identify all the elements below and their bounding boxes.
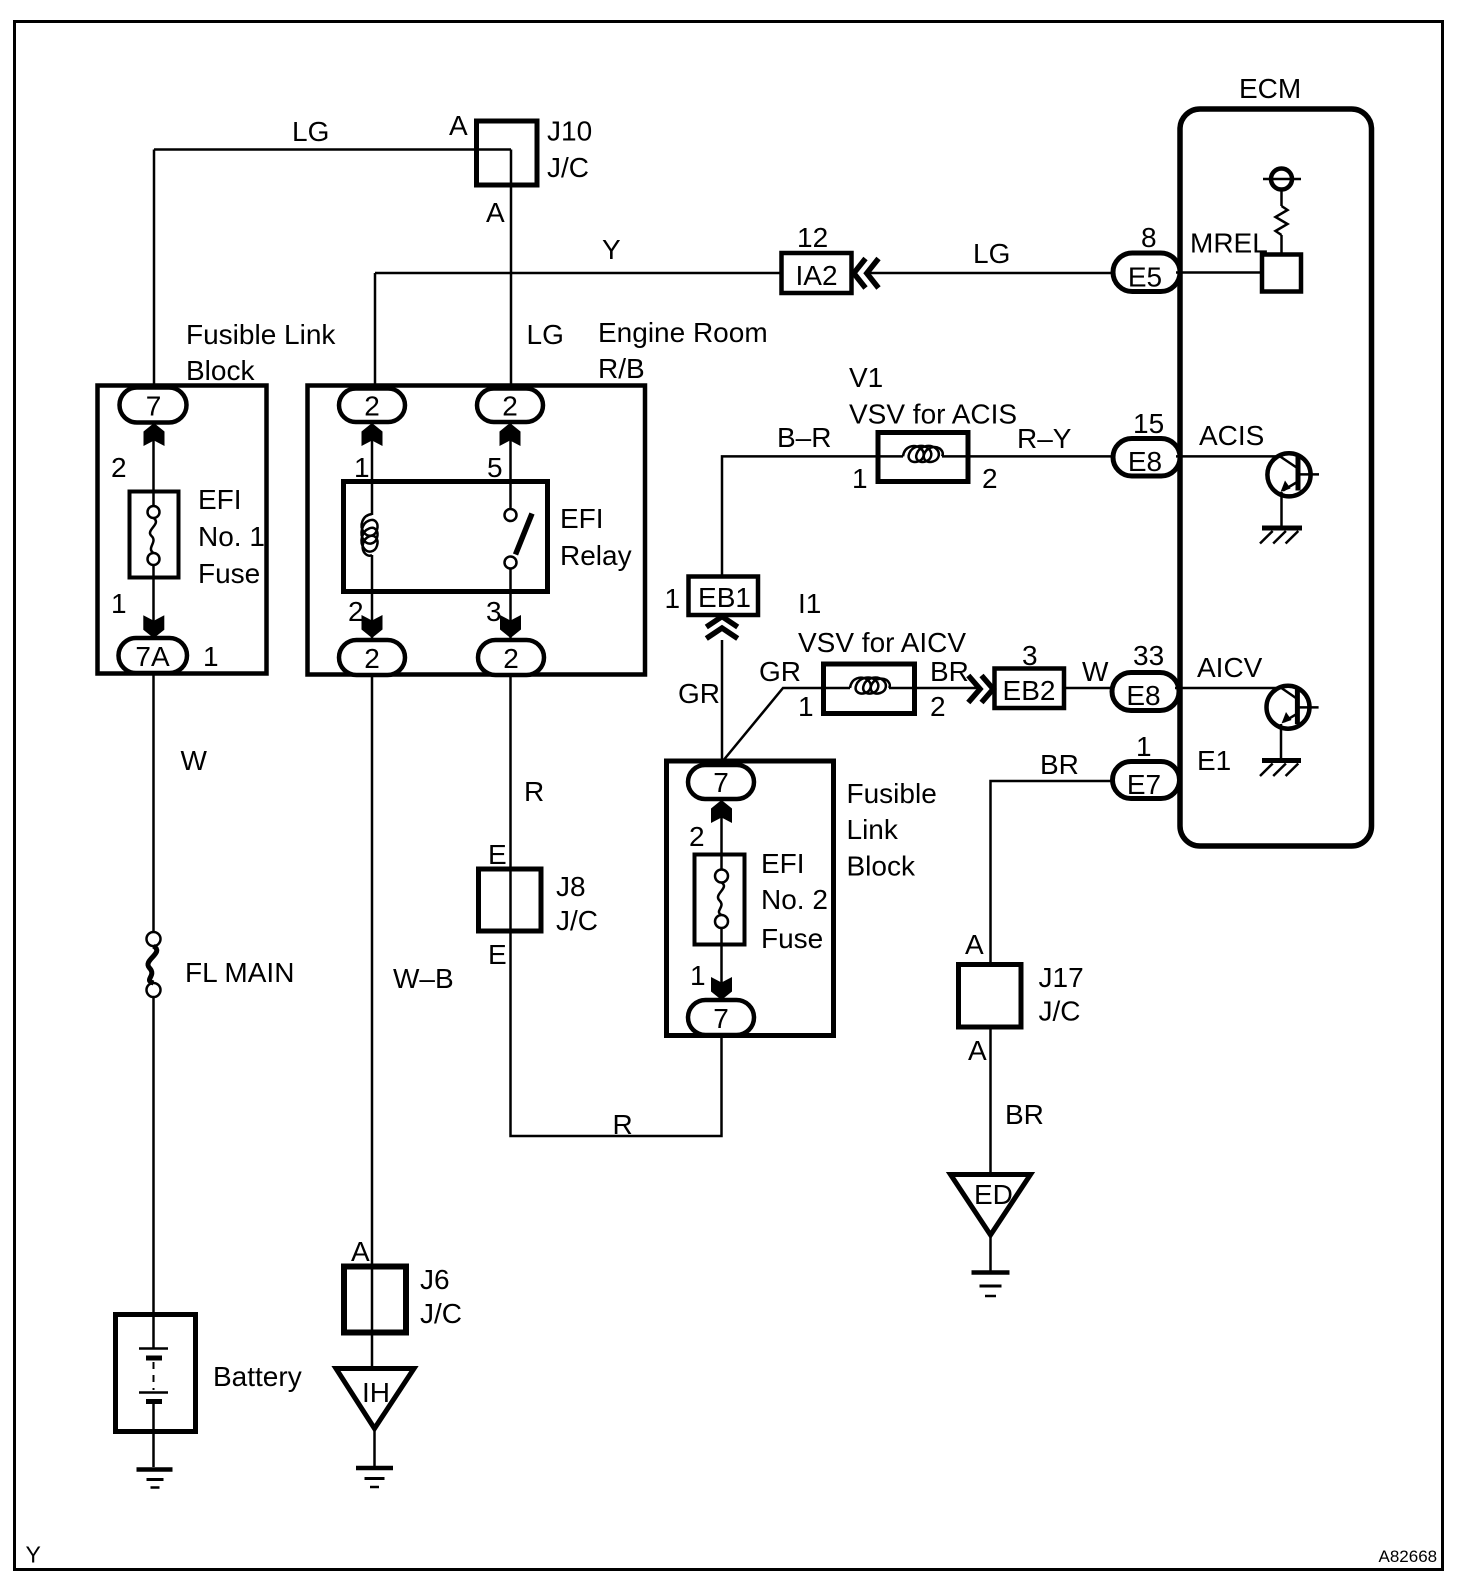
svg-text:LG: LG [973,238,1010,269]
wire Y horizontal [375,272,781,275]
arrow down at terminal 7A [143,615,164,638]
junction J10 J/C [477,116,593,186]
svg-text:E1: E1 [1197,745,1231,776]
svg-text:GR: GR [759,656,801,687]
svg-text:E8: E8 [1128,446,1162,477]
arrow up below oval 7 [711,800,732,823]
svg-text:GR: GR [678,678,720,709]
svg-text:2: 2 [503,643,519,674]
arrow up below oval 2 left [362,423,383,446]
terminal oval 2 (top left) [339,389,405,423]
ECM block [1180,73,1372,846]
wire through EFI No.1 fuse [152,422,155,506]
svg-text:ECM: ECM [1239,73,1301,104]
svg-text:R/B: R/B [598,353,645,384]
connector chevrons before EB2 [968,676,993,703]
ground hatched at AICV [1260,761,1301,777]
junction J17 J/C [959,962,1084,1027]
svg-text:IH: IH [362,1377,390,1408]
connector chevrons below EB1 [706,617,737,639]
fuse EFI No. 2 [695,848,828,954]
arrow up below oval 2 right [500,423,521,446]
svg-text:1: 1 [354,452,370,483]
svg-text:IA2: IA2 [795,260,837,291]
connector E8 (AICV) [1112,673,1179,712]
svg-text:A: A [449,110,468,141]
wire E5 to MREL box [1176,271,1264,274]
svg-text:Block: Block [186,355,255,386]
svg-text:7: 7 [713,767,729,798]
svg-text:A: A [968,1035,987,1066]
svg-text:AICV: AICV [1197,652,1263,683]
transistor AICV driver [1267,686,1319,759]
svg-text:Fusible: Fusible [847,778,937,809]
svg-text:EB1: EB1 [698,582,751,613]
svg-text:2: 2 [502,391,518,422]
svg-text:2: 2 [689,821,705,852]
terminal oval 2 (bottom left) [339,640,405,675]
wire relay pin 5 [509,422,512,509]
svg-text:1: 1 [798,691,814,722]
svg-text:2: 2 [111,452,127,483]
arrow up at terminal 7 [144,423,165,446]
svg-text:E7: E7 [1127,769,1161,800]
svg-text:J17: J17 [1039,962,1084,993]
svg-text:J6: J6 [420,1264,450,1295]
svg-text:EFI: EFI [761,848,805,879]
svg-text:E5: E5 [1128,262,1162,293]
svg-text:Y: Y [26,1542,41,1568]
EFI relay box [344,482,632,592]
svg-text:LG: LG [292,116,329,147]
wire W battery feed [152,673,155,932]
ground triangle IH [336,1369,414,1467]
terminal oval 7 top [688,765,754,799]
svg-text:12: 12 [797,222,828,253]
wire LG from IA2 to E5 [870,272,1114,275]
svg-text:Fuse: Fuse [761,923,823,954]
svg-text:15: 15 [1133,408,1164,439]
svg-text:BR: BR [930,656,969,687]
wire R-Y [968,455,1114,458]
connector chevrons at IA2 [854,259,879,289]
wire E8 to ACIS transistor [1176,455,1281,458]
svg-text:MREL: MREL [1190,228,1268,259]
wire E8 to AICV transistor [1175,687,1282,690]
svg-text:EFI: EFI [198,484,242,515]
wire Y vertical [374,273,377,390]
svg-text:1: 1 [1136,731,1152,762]
wire B-R [722,456,878,577]
wire pin3 to oval [509,591,512,640]
svg-text:1: 1 [665,583,681,614]
svg-text:BR: BR [1005,1099,1044,1130]
svg-text:No. 1: No. 1 [198,521,265,552]
junction J8 J/C [479,869,599,936]
svg-text:1: 1 [852,463,868,494]
svg-text:R: R [613,1109,633,1140]
arrow down above bottom-right oval [500,615,521,638]
Fusible Link Block 1 [98,319,337,674]
svg-text:J/C: J/C [547,152,589,183]
terminal oval 7A [119,638,188,673]
ground below ED [972,1273,1010,1297]
transistor ACIS driver [1267,453,1319,527]
wire GR from EB1 to fusible link 7 [721,640,724,763]
connector EB1 pin 1 [665,577,759,616]
svg-text:I1: I1 [798,588,821,619]
svg-text:1: 1 [690,960,706,991]
wire relay switch to pin 3 [509,569,512,592]
battery [116,1314,302,1467]
Engine Room R/B block [308,317,768,675]
svg-text:5: 5 [487,452,503,483]
svg-text:7: 7 [713,1003,729,1034]
wire pin2 to oval [371,591,374,640]
wire BR to EB2 [915,687,977,690]
svg-text:33: 33 [1133,640,1164,671]
svg-text:VSV for ACIS: VSV for ACIS [849,399,1017,430]
svg-text:2: 2 [364,643,380,674]
svg-text:Link: Link [847,814,899,845]
svg-text:ACIS: ACIS [1199,420,1264,451]
svg-text:E: E [488,839,507,870]
wire BR from E7 [991,781,1114,964]
svg-text:VSV for AICV: VSV for AICV [798,627,966,658]
svg-text:R–Y: R–Y [1017,423,1072,454]
svg-text:A82668: A82668 [1379,1547,1438,1566]
terminal oval 7 [120,388,187,423]
svg-text:R: R [524,776,544,807]
svg-text:Y: Y [602,234,621,265]
wire relay coil to pin 2 [371,555,374,591]
svg-text:FL MAIN: FL MAIN [185,957,294,988]
svg-text:J/C: J/C [420,1298,462,1329]
wire LG vertical to fusible link block [153,150,156,391]
svg-text:Fusible Link: Fusible Link [186,319,336,350]
arrow down above oval 7 bottom [711,977,732,1000]
svg-text:7A: 7A [135,641,170,672]
connector E5 [1113,253,1180,293]
terminal oval 7 bottom [688,1000,754,1035]
connector E8 (ACIS) [1113,439,1180,478]
svg-text:A: A [965,929,984,960]
wire A from J10 down [510,150,513,391]
connector E7 [1113,762,1180,801]
svg-text:2: 2 [348,596,364,627]
wire through EFI No.2 fuse [720,799,723,870]
ground below battery [137,1470,173,1488]
svg-text:2: 2 [982,463,998,494]
svg-text:Battery: Battery [213,1361,302,1392]
svg-text:J/C: J/C [1039,996,1081,1027]
wire GR diagonal [722,688,823,762]
svg-text:Block: Block [847,851,916,882]
svg-text:A: A [351,1236,370,1267]
relay coil [362,514,378,556]
terminal oval 2 (top right) [477,389,543,423]
svg-text:EB2: EB2 [1003,675,1056,706]
wire W-B relay coil ground path [371,675,374,1368]
svg-text:J10: J10 [547,116,592,147]
wire R from relay to J8 and fusible link 2 [511,675,722,1136]
svg-text:A: A [486,197,505,228]
svg-text:J/C: J/C [556,905,598,936]
svg-text:EFI: EFI [560,503,604,534]
svg-text:E8: E8 [1126,680,1160,711]
VSV V1 coil [878,446,968,462]
wire relay pin 1 [371,422,374,515]
relay switch [505,509,533,569]
svg-text:8: 8 [1141,222,1157,253]
svg-text:W: W [181,745,208,776]
svg-text:1: 1 [203,641,219,672]
svg-text:B–R: B–R [777,422,831,453]
svg-text:W: W [1082,656,1109,687]
wire BR to ED [989,1027,992,1174]
Fusible Link Block 2 [667,761,937,1036]
arrow down above bottom-left oval [362,615,383,638]
VSV I1 coil [823,678,915,694]
svg-text:Engine Room: Engine Room [598,317,768,348]
junction J6 J/C [344,1264,462,1333]
svg-text:BR: BR [1040,749,1079,780]
ground below IH [356,1468,393,1487]
wire W [1064,687,1113,690]
svg-text:LG: LG [527,319,564,350]
svg-text:J8: J8 [556,871,586,902]
fusible link FL MAIN [147,932,295,997]
svg-text:E: E [488,939,507,970]
VSV V1 box [878,433,968,482]
fuse EFI No. 1 [130,484,265,589]
VSV I1 box [824,664,915,714]
terminal oval 2 (bottom right) [478,640,544,675]
svg-text:Fuse: Fuse [198,558,260,589]
svg-text:2: 2 [364,391,380,422]
svg-text:ED: ED [974,1179,1013,1210]
svg-text:V1: V1 [849,362,883,393]
svg-text:Relay: Relay [560,540,632,571]
svg-text:No. 2: No. 2 [761,884,828,915]
svg-text:1: 1 [111,588,127,619]
connector EB2 pin 3 [995,640,1065,708]
svg-text:3: 3 [486,596,502,627]
wire LG horizontal top [154,148,511,151]
MREL driver circuit [1262,169,1301,292]
connector IA2 pin 12 [782,222,852,293]
ground hatched at ACIS [1260,528,1302,544]
svg-text:W–B: W–B [393,963,454,994]
ground triangle ED [951,1175,1031,1272]
svg-text:7: 7 [146,391,162,422]
svg-text:2: 2 [930,691,946,722]
